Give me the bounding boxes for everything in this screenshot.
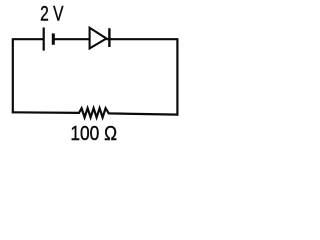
svg-text:100 Ω: 100 Ω (70, 122, 117, 145)
svg-text:2 V: 2 V (40, 3, 63, 26)
